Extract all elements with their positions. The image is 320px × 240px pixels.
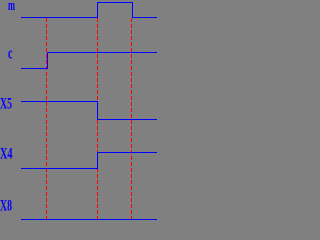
time marker T1 (red dashed) (46, 18, 48, 219)
waveform X4 (21, 153, 157, 169)
waveform m (21, 3, 157, 18)
svg-text:m: m (8, 0, 15, 14)
waveform X5 (21, 102, 157, 120)
svg-text:X5: X5 (0, 96, 12, 113)
waveform X8 (21, 219, 157, 221)
time marker T2 (red dashed) (97, 18, 99, 219)
svg-text:X4: X4 (0, 146, 13, 163)
timing diagram (0, 0, 157, 221)
svg-text:X8: X8 (0, 198, 12, 215)
svg-text:c: c (8, 44, 13, 63)
time marker T3 (red dashed) (131, 18, 133, 219)
waveform c (21, 53, 157, 69)
